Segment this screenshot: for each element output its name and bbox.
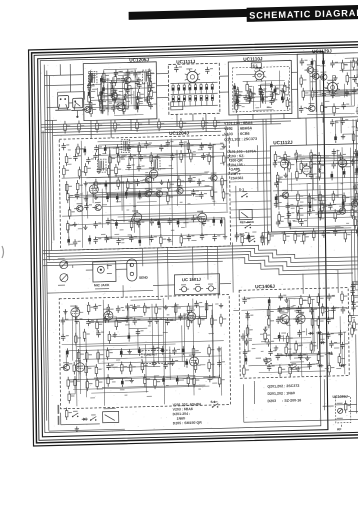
capacitor C33 xyxy=(352,87,358,94)
wire xyxy=(287,299,289,308)
wire xyxy=(151,304,154,355)
wire xyxy=(333,163,335,165)
wire xyxy=(103,88,153,89)
ground xyxy=(296,366,300,371)
wire xyxy=(291,71,297,73)
wire xyxy=(128,158,130,165)
resistor R28 xyxy=(236,87,243,100)
wire xyxy=(101,88,103,114)
wire xyxy=(101,99,104,101)
resistor R164 xyxy=(74,333,81,346)
wire xyxy=(146,82,148,102)
wire xyxy=(145,344,148,392)
electrolytic capacitor E43 xyxy=(120,348,123,357)
wire xyxy=(164,319,167,363)
electrolytic capacitor E5 xyxy=(136,103,139,112)
ground xyxy=(63,309,67,314)
electrolytic capacitor E15 xyxy=(104,145,107,154)
IC block UC1406J xyxy=(239,282,349,378)
wire xyxy=(302,274,304,294)
capacitor C49 xyxy=(93,153,101,160)
electrolytic capacitor E53 xyxy=(278,332,281,341)
diode D301 (meter) xyxy=(337,403,343,419)
resistor R202 xyxy=(246,325,253,338)
ground xyxy=(245,311,249,316)
wire xyxy=(49,429,125,431)
wire xyxy=(73,386,209,389)
resistor R25 xyxy=(246,81,253,94)
resistor R15 xyxy=(98,92,105,105)
switch labels xyxy=(263,357,293,368)
electrolytic capacitor E18 xyxy=(116,193,119,202)
wire xyxy=(53,131,221,135)
resistor R188 xyxy=(187,374,194,387)
wire xyxy=(307,113,354,114)
capacitor C39 xyxy=(94,145,102,152)
wire xyxy=(110,150,111,239)
resistor R70 xyxy=(117,177,124,190)
IC block UC 1501J xyxy=(174,274,219,295)
wire xyxy=(176,150,179,206)
value labels xyxy=(277,310,301,312)
wire xyxy=(332,79,334,98)
wire xyxy=(269,232,346,234)
wire xyxy=(131,298,162,301)
wire xyxy=(76,311,77,407)
resistor R32 xyxy=(273,89,280,102)
value labels xyxy=(67,347,218,399)
wire xyxy=(342,205,344,211)
wire xyxy=(247,100,275,103)
tube V102 xyxy=(252,68,266,82)
capacitor C132 xyxy=(86,319,94,326)
switch S-8 xyxy=(265,358,272,365)
wire xyxy=(275,354,308,357)
wire xyxy=(230,173,271,174)
capacitor C187 xyxy=(351,304,358,311)
electrolytic capacitor E52 xyxy=(245,355,248,364)
wire xyxy=(260,84,262,90)
resistor R211 xyxy=(279,364,286,377)
switch S-3 xyxy=(249,236,256,243)
wire xyxy=(160,223,162,238)
wire xyxy=(350,315,354,317)
wire xyxy=(288,299,291,360)
wire xyxy=(86,191,88,218)
resistor R160 xyxy=(187,317,194,330)
capacitor C69 xyxy=(191,215,199,222)
header title bar xyxy=(247,4,358,22)
wire xyxy=(313,90,355,91)
capacitor C138 xyxy=(165,318,173,325)
wire xyxy=(86,365,96,367)
transistor Q152 xyxy=(193,284,203,292)
wire xyxy=(84,92,86,100)
diode D4 xyxy=(319,341,325,344)
wire xyxy=(86,194,148,196)
wire xyxy=(193,299,194,396)
wire xyxy=(69,223,139,225)
resistor R144 xyxy=(302,232,309,245)
IC block xyxy=(232,66,290,111)
svg-text:UC 1501J: UC 1501J xyxy=(182,277,202,282)
resistor R105 xyxy=(202,117,209,130)
wire xyxy=(44,65,47,301)
wire xyxy=(279,225,358,227)
wire xyxy=(353,119,355,289)
ground xyxy=(75,306,79,311)
electrolytic capacitor E19 xyxy=(125,190,128,199)
wire xyxy=(157,85,169,87)
wire xyxy=(311,163,358,164)
wire xyxy=(288,182,358,184)
value labels xyxy=(69,218,197,245)
wire xyxy=(115,173,208,175)
capacitor C26 xyxy=(300,58,308,65)
wire xyxy=(318,318,333,320)
capacitor C66 xyxy=(137,220,145,227)
capacitor C177 xyxy=(288,351,296,358)
wire xyxy=(103,79,105,82)
resistor R146 xyxy=(344,229,351,242)
resistor R149 xyxy=(241,233,248,246)
ground xyxy=(155,154,159,159)
wire xyxy=(133,91,135,109)
resistor R162 xyxy=(211,315,218,328)
wire xyxy=(244,298,246,300)
wire xyxy=(108,365,110,367)
wire xyxy=(227,255,353,276)
wire xyxy=(340,69,358,72)
wire xyxy=(157,97,169,99)
wire xyxy=(41,118,301,125)
resistor R22 xyxy=(90,104,97,117)
wire xyxy=(353,90,355,106)
wire xyxy=(310,164,312,175)
svg-text:UC1110J: UC1110J xyxy=(243,56,263,61)
wire xyxy=(47,301,49,431)
electrolytic capacitor E39 xyxy=(356,227,358,236)
resistor R30 xyxy=(235,90,242,103)
wire xyxy=(313,309,316,352)
resistor R126 xyxy=(355,190,358,203)
wire xyxy=(283,335,285,341)
wire xyxy=(350,60,353,105)
wire xyxy=(86,269,93,271)
switch S-1 (UC1110J) xyxy=(251,63,261,68)
wire xyxy=(128,308,130,336)
wire xyxy=(224,219,226,234)
wire xyxy=(322,118,324,123)
wire xyxy=(258,84,284,87)
capacitor C104 xyxy=(350,158,358,165)
IC block UC1205J xyxy=(83,57,157,121)
wire xyxy=(357,59,358,62)
capacitor C127 xyxy=(125,303,133,310)
wire xyxy=(353,283,358,285)
resistor R166 xyxy=(108,331,115,344)
resistor R109 xyxy=(295,150,302,163)
diode D1 xyxy=(82,418,88,421)
wire xyxy=(153,284,175,287)
resistor R172 xyxy=(208,344,215,357)
IC sub-box xyxy=(171,102,183,110)
capacitor C47 xyxy=(73,154,81,161)
wire xyxy=(280,307,329,308)
wire xyxy=(114,114,143,117)
resistor R184 xyxy=(96,377,103,390)
wire xyxy=(59,64,61,75)
resistor R173 xyxy=(73,362,80,375)
wire xyxy=(198,306,200,318)
svg-text:REC JACK: REC JACK xyxy=(240,220,254,224)
capacitor C146 xyxy=(152,360,160,367)
IF transformer T4 xyxy=(97,159,106,172)
wire xyxy=(248,95,250,98)
wire xyxy=(357,153,358,169)
capacitor C63 xyxy=(84,203,92,210)
wire xyxy=(116,268,127,270)
capacitor C133 xyxy=(103,316,111,323)
svg-text:UC1406J: UC1406J xyxy=(255,284,275,290)
IC block UC1110J xyxy=(228,56,292,115)
wire xyxy=(127,72,129,108)
resistor R161 xyxy=(198,315,205,328)
wire xyxy=(339,316,341,354)
wire xyxy=(343,133,354,135)
capacitor C70 xyxy=(202,219,210,226)
capacitor C172 xyxy=(326,332,334,339)
capacitor C115 xyxy=(328,202,336,209)
wire xyxy=(288,203,358,206)
wire xyxy=(236,73,264,76)
capacitor C157 xyxy=(331,306,339,313)
resistor R118 xyxy=(276,172,283,185)
wire xyxy=(137,330,139,352)
electrolytic capacitor E9 xyxy=(261,95,264,104)
wire xyxy=(138,144,140,146)
resistor R35 xyxy=(286,97,293,110)
tube V202 xyxy=(103,308,113,322)
wire xyxy=(41,128,231,133)
resistor R120 xyxy=(318,168,325,181)
wire xyxy=(120,353,201,355)
capacitor C53 xyxy=(201,153,209,160)
transistor Q6 xyxy=(310,71,319,80)
resistor R19 xyxy=(99,96,106,109)
wire xyxy=(349,148,352,218)
resistor R65 xyxy=(107,165,114,178)
tube V108 xyxy=(280,157,289,171)
wire xyxy=(66,193,69,195)
wire xyxy=(140,191,168,194)
capacitor C3 xyxy=(133,70,141,77)
wire xyxy=(101,189,103,228)
wire xyxy=(341,344,344,346)
wire xyxy=(171,138,172,245)
wire xyxy=(118,74,129,76)
wire xyxy=(192,247,194,280)
wire xyxy=(90,103,92,110)
wire xyxy=(235,94,237,100)
wire xyxy=(113,219,189,221)
wire xyxy=(95,366,97,367)
resistor R208 xyxy=(310,341,317,354)
wire xyxy=(43,261,223,266)
wire xyxy=(148,178,151,246)
capacitor C12 xyxy=(112,96,120,103)
wire xyxy=(97,321,128,324)
wire xyxy=(296,156,298,171)
resistor R3 xyxy=(148,68,155,81)
wire xyxy=(259,371,326,373)
wire xyxy=(97,88,99,97)
wire xyxy=(311,299,314,353)
wire xyxy=(71,315,74,360)
capacitor C140 xyxy=(61,334,69,341)
wire xyxy=(334,159,358,160)
wire xyxy=(288,222,290,224)
wire xyxy=(45,124,281,130)
wire xyxy=(304,94,358,95)
wire xyxy=(126,190,212,192)
resistor R82 xyxy=(160,234,167,247)
diode D2 xyxy=(308,332,314,335)
transistor Q151 xyxy=(179,284,189,292)
resistor R201 xyxy=(267,316,274,329)
wire xyxy=(60,413,62,425)
resistor R83 xyxy=(180,233,187,246)
resistor R192 xyxy=(65,407,72,420)
wire xyxy=(118,215,198,217)
resistor R78 xyxy=(222,189,229,202)
jack REC J2 xyxy=(239,209,254,224)
wire xyxy=(261,232,263,235)
transistor Q2 xyxy=(108,90,117,99)
svg-text:S-1: S-1 xyxy=(211,400,216,404)
wire xyxy=(262,230,358,233)
capacitor C174 xyxy=(329,340,337,347)
switch S-1 xyxy=(241,191,248,198)
wire xyxy=(107,78,109,112)
wire xyxy=(306,328,308,335)
wire xyxy=(105,183,107,194)
capacitor C168 xyxy=(268,349,276,356)
tube V203 xyxy=(75,360,85,374)
wire xyxy=(76,111,78,117)
capacitor C136 xyxy=(148,317,156,324)
resistor R226 xyxy=(353,319,358,332)
value labels xyxy=(79,303,219,337)
wire xyxy=(117,96,150,99)
wire xyxy=(253,381,255,404)
wire xyxy=(252,114,254,119)
wire xyxy=(65,319,127,321)
capacitor C54 xyxy=(97,167,105,174)
resistor R79 xyxy=(68,207,75,220)
svg-text:UC1306J: UC1306J xyxy=(332,395,347,399)
electrolytic capacitor E49 xyxy=(162,376,165,385)
wire xyxy=(310,152,312,154)
capacitor C78 xyxy=(200,233,208,240)
svg-text:UC1112J: UC1112J xyxy=(273,140,293,145)
wire xyxy=(332,62,353,65)
wire xyxy=(309,74,311,106)
resistor R158 xyxy=(96,319,103,332)
wire xyxy=(230,225,271,226)
capacitor C17 xyxy=(174,65,182,72)
wire xyxy=(305,118,307,145)
capacitor C27 xyxy=(330,60,338,67)
wire xyxy=(292,88,298,90)
switch S-2 xyxy=(244,222,251,229)
wire xyxy=(129,306,156,309)
resistor network RN2 xyxy=(172,95,214,107)
resistor R5 xyxy=(114,73,121,86)
ground xyxy=(137,77,141,82)
wire xyxy=(264,80,266,103)
wire xyxy=(332,93,358,94)
IF transformer T3 xyxy=(121,139,130,152)
capacitor C52 xyxy=(170,153,178,160)
capacitor C24 xyxy=(260,95,268,102)
wire xyxy=(129,144,224,146)
electrolytic capacitor E16 xyxy=(105,180,108,189)
electrolytic capacitor E2 xyxy=(102,85,105,94)
resistor R72 xyxy=(167,179,174,192)
wire xyxy=(343,196,345,212)
electrolytic capacitor E41 xyxy=(128,333,131,342)
electrolytic capacitor E30 xyxy=(356,150,358,159)
resistor R88 xyxy=(352,131,358,144)
value labels xyxy=(245,327,269,359)
value labels xyxy=(58,405,60,425)
svg-text:D203 : SZ-200-16: D203 : SZ-200-16 xyxy=(268,398,302,403)
wire xyxy=(266,119,268,245)
wire xyxy=(171,82,218,83)
wire xyxy=(2,246,4,258)
wire xyxy=(44,74,83,77)
wire xyxy=(125,168,173,169)
capacitor C155 xyxy=(296,306,304,313)
resistor R33 xyxy=(282,90,289,103)
wire xyxy=(108,365,110,367)
capacitor C55 xyxy=(127,163,135,170)
transistor Q4 xyxy=(304,64,313,73)
node AF xyxy=(337,427,342,431)
wire xyxy=(102,81,137,84)
wire xyxy=(343,204,358,207)
capacitor C18 xyxy=(205,67,213,74)
wire xyxy=(243,242,358,260)
value labels xyxy=(74,180,215,212)
wire xyxy=(312,173,314,190)
capacitor C40 xyxy=(126,144,134,151)
wire xyxy=(336,150,339,198)
wire xyxy=(132,219,225,221)
wire xyxy=(108,194,168,196)
wire xyxy=(243,80,285,81)
resistor R165 xyxy=(83,329,90,342)
wire xyxy=(107,84,109,115)
resistor R122 xyxy=(308,193,315,206)
wire xyxy=(102,104,124,107)
electrolytic capacitor E32 xyxy=(330,171,333,180)
wire xyxy=(323,405,334,407)
resistor R59 xyxy=(189,150,196,163)
capacitor C45 xyxy=(199,142,207,149)
transistor Q15 xyxy=(74,203,83,212)
